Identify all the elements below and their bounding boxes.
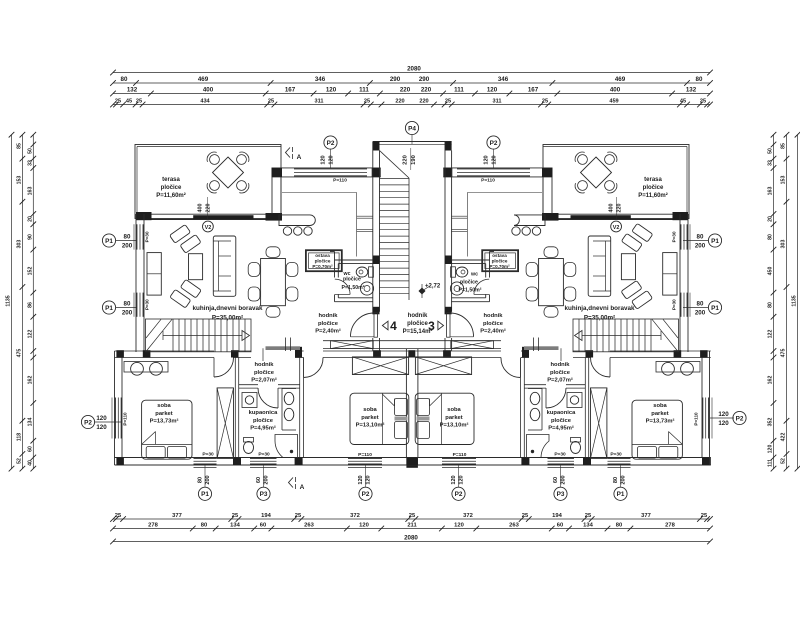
svg-text:200: 200	[264, 475, 270, 484]
svg-text:hodnik: hodnik	[255, 362, 275, 368]
svg-text:200: 200	[122, 243, 133, 250]
svg-text:80: 80	[201, 523, 207, 529]
svg-text:1135: 1135	[792, 295, 798, 306]
storage room (ostava) right unit	[482, 250, 518, 271]
svg-text:P=110: P=110	[481, 178, 495, 184]
apartment number 3	[438, 321, 444, 330]
dimension chain right middle	[786, 135, 788, 469]
svg-text:hodnik: hodnik	[484, 313, 504, 319]
svg-text:290: 290	[390, 76, 401, 83]
svg-text:120: 120	[451, 475, 457, 484]
svg-text:120: 120	[96, 415, 107, 422]
svg-text:278: 278	[148, 523, 158, 529]
svg-text:80: 80	[696, 76, 703, 83]
svg-text:120: 120	[492, 155, 498, 164]
svg-text:hodnik: hodnik	[319, 313, 339, 319]
porch canopy line left unit	[282, 192, 357, 194]
window mark P2 top-right	[487, 136, 500, 149]
svg-text:P=30: P=30	[672, 231, 677, 242]
svg-text:120: 120	[718, 420, 729, 427]
bathroom north wall right unit	[566, 384, 585, 386]
kitchen wall cabinets left unit	[147, 253, 161, 296]
svg-text:120: 120	[358, 475, 364, 484]
bathroom double washbasin left unit	[281, 389, 283, 431]
svg-text:400: 400	[198, 204, 204, 213]
svg-text:parket: parket	[651, 411, 668, 417]
dimension chain right outer 1135	[797, 135, 799, 469]
svg-text:kuhinja,dnevni boravak: kuhinja,dnevni boravak	[193, 305, 263, 312]
svg-text:163: 163	[27, 187, 33, 196]
svg-text:200: 200	[122, 310, 133, 317]
svg-text:25: 25	[364, 99, 370, 105]
svg-text:346: 346	[315, 76, 326, 83]
svg-text:terasa: terasa	[644, 177, 662, 183]
window mark P1 bottom-right	[614, 487, 627, 500]
svg-text:263: 263	[304, 523, 314, 529]
bedroom dresser + stools right unit	[656, 362, 700, 373]
hall west wall left unit	[285, 338, 287, 352]
porch canopy line right unit	[467, 192, 542, 194]
window mark P2 left	[81, 415, 94, 428]
svg-text:P2: P2	[327, 140, 335, 147]
svg-text:120: 120	[366, 475, 372, 484]
armchairs right unit	[632, 223, 653, 242]
svg-text:25: 25	[522, 513, 529, 519]
partition hall/bedroom2 wall left unit	[299, 358, 301, 458]
svg-text:pločice: pločice	[643, 185, 664, 191]
svg-text:P2: P2	[455, 491, 463, 498]
washing machine right unit	[567, 393, 582, 408]
svg-text:120: 120	[487, 87, 498, 94]
bathroom double washbasin right unit	[541, 389, 543, 431]
bed center bedroom right unit	[415, 393, 474, 444]
svg-text:194: 194	[261, 513, 271, 519]
svg-text:P=13,73m²: P=13,73m²	[150, 418, 179, 425]
svg-text:P=110: P=110	[694, 412, 699, 426]
elevation mark +2,72	[418, 287, 425, 294]
svg-text:80: 80	[697, 301, 704, 308]
svg-text:80: 80	[616, 523, 622, 529]
svg-text:P=30: P=30	[145, 231, 150, 242]
svg-text:25: 25	[445, 99, 451, 105]
svg-text:303: 303	[16, 240, 22, 249]
svg-text:400: 400	[609, 204, 615, 213]
window mark P2 right	[733, 411, 746, 424]
top exterior wall right unit	[542, 213, 688, 215]
svg-text:pločice: pločice	[550, 370, 571, 376]
svg-text:80: 80	[124, 234, 131, 241]
svg-text:120: 120	[768, 445, 774, 454]
svg-text:220: 220	[419, 99, 428, 105]
wc sink left unit	[360, 282, 373, 295]
dimension chain right inner	[773, 135, 775, 469]
svg-text:220: 220	[617, 204, 623, 213]
svg-text:469: 469	[615, 76, 626, 83]
svg-text:wc: wc	[470, 272, 478, 278]
svg-text:377: 377	[641, 513, 651, 519]
dimension row top-4	[113, 104, 710, 106]
window mark P3 bottom-left	[257, 487, 270, 500]
svg-text:220: 220	[400, 87, 411, 94]
svg-text:400: 400	[610, 87, 621, 94]
hall west wall right unit	[538, 338, 540, 352]
bed center bedroom left unit	[350, 393, 409, 444]
door bathroom right	[546, 388, 566, 408]
bathroom toilet left unit	[244, 442, 254, 454]
svg-text:111: 111	[768, 459, 774, 467]
svg-text:soba: soba	[363, 407, 377, 413]
door bedroom right	[591, 358, 611, 378]
svg-text:A: A	[300, 484, 305, 491]
svg-text:469: 469	[198, 76, 209, 83]
svg-text:45: 45	[680, 99, 686, 105]
svg-text:80: 80	[697, 234, 704, 241]
wc room walls left unit	[334, 252, 336, 278]
svg-text:P=35,00m²: P=35,00m²	[212, 315, 243, 322]
svg-text:ostava: ostava	[492, 253, 507, 258]
svg-text:P=110: P=110	[358, 452, 372, 458]
entry nook wall left unit	[271, 168, 273, 214]
svg-text:3: 3	[428, 319, 435, 333]
bathroom toilet right unit	[571, 442, 581, 454]
dimension chain left outer 1135	[11, 135, 13, 469]
svg-text:200: 200	[695, 243, 706, 250]
svg-text:pločice: pločice	[318, 321, 339, 327]
svg-text:kupaonica: kupaonica	[547, 410, 576, 416]
door bedroom center-left	[304, 358, 323, 378]
svg-text:450: 450	[768, 267, 774, 276]
svg-text:P=110: P=110	[333, 178, 347, 184]
svg-text:459: 459	[609, 99, 618, 105]
svg-text:hodnik: hodnik	[551, 362, 571, 368]
svg-text:311: 311	[314, 99, 323, 105]
wardrobe bedroom right unit	[591, 388, 607, 459]
svg-text:P=4,95m²: P=4,95m²	[250, 425, 276, 432]
svg-text:P=13,10m²: P=13,10m²	[356, 422, 385, 429]
svg-text:P=110: P=110	[453, 452, 467, 458]
svg-text:434: 434	[200, 99, 210, 105]
door wc left	[335, 279, 350, 294]
svg-text:P1: P1	[105, 305, 113, 312]
svg-text:P1: P1	[201, 491, 209, 498]
wc room walls right unit	[489, 252, 491, 278]
terrace outline right unit	[543, 145, 689, 219]
svg-text:V2: V2	[205, 225, 212, 231]
svg-text:P=4,95m²: P=4,95m²	[548, 425, 574, 432]
internal staircase right unit	[573, 319, 679, 352]
sofa right unit	[588, 236, 611, 296]
kitchen wall cabinets right unit	[663, 253, 677, 296]
bedroom zone north wall	[115, 350, 215, 352]
svg-text:60: 60	[256, 477, 262, 483]
svg-text:60: 60	[553, 477, 559, 483]
svg-text:120: 120	[321, 155, 327, 164]
dining table + chairs right unit	[539, 259, 564, 306]
svg-text:pločice: pločice	[343, 277, 361, 283]
svg-text:P=30: P=30	[672, 299, 677, 310]
svg-text:pločice: pločice	[407, 321, 428, 327]
bathroom north wall left unit	[239, 384, 258, 386]
svg-text:4: 4	[390, 319, 397, 333]
svg-text:120: 120	[329, 155, 335, 164]
svg-text:pločice: pločice	[460, 280, 478, 286]
svg-text:P=110: P=110	[123, 412, 128, 426]
svg-text:P=11,60m²: P=11,60m²	[156, 192, 186, 199]
svg-text:122: 122	[768, 330, 774, 339]
svg-text:25: 25	[542, 99, 548, 105]
svg-text:400: 400	[203, 87, 214, 94]
window mark P1 right lower	[708, 301, 721, 314]
svg-text:122: 122	[27, 330, 33, 339]
svg-text:P2: P2	[84, 419, 92, 426]
stair tower outline	[373, 141, 452, 143]
window mark P1 left upper	[102, 234, 115, 247]
svg-text:45: 45	[126, 99, 132, 105]
wc toilet left unit	[356, 267, 368, 277]
svg-text:hodnik: hodnik	[408, 313, 428, 319]
entry door unit 3	[447, 313, 450, 338]
svg-text:134: 134	[583, 523, 593, 529]
svg-text:220: 220	[421, 87, 432, 94]
svg-text:P2: P2	[490, 140, 498, 147]
svg-text:162: 162	[27, 376, 33, 385]
svg-text:220: 220	[206, 204, 212, 213]
svg-text:303: 303	[781, 240, 787, 249]
svg-text:parket: parket	[361, 415, 378, 421]
staircase treads	[380, 178, 410, 180]
entry nook wall right unit	[551, 168, 553, 214]
svg-text:311: 311	[492, 99, 501, 105]
armchairs left unit	[170, 225, 191, 244]
terrace outline left unit	[135, 145, 281, 219]
wardrobe center bedroom left unit	[352, 357, 408, 375]
wc toilet right unit	[456, 267, 468, 277]
svg-text:parket: parket	[155, 411, 172, 417]
svg-text:P=30: P=30	[258, 452, 270, 458]
svg-text:parket: parket	[445, 415, 462, 421]
svg-text:80: 80	[613, 477, 619, 483]
svg-text:P=0,70m²: P=0,70m²	[312, 264, 333, 269]
kitchen counter right unit	[514, 215, 545, 226]
svg-text:P1: P1	[711, 238, 719, 245]
internal staircase left unit	[146, 319, 252, 352]
svg-text:kuhinja,dnevni boravak: kuhinja,dnevni boravak	[565, 305, 635, 312]
window mark P2 bottom-left	[359, 487, 372, 500]
svg-text:33: 33	[768, 160, 774, 166]
svg-text:25: 25	[585, 513, 592, 519]
shower left unit	[275, 435, 298, 458]
svg-text:60: 60	[27, 446, 33, 452]
svg-text:ostava: ostava	[315, 253, 330, 258]
svg-text:25: 25	[701, 513, 708, 519]
washing machine left unit	[242, 393, 257, 408]
svg-text:153: 153	[16, 176, 22, 185]
svg-text:50: 50	[768, 148, 774, 154]
svg-text:P=1,50m²: P=1,50m²	[459, 288, 482, 294]
svg-text:50: 50	[27, 148, 33, 154]
svg-text:167: 167	[285, 87, 296, 94]
window mark P1 left lower	[102, 301, 115, 314]
svg-text:162: 162	[768, 376, 774, 385]
svg-text:P3: P3	[260, 491, 268, 498]
svg-text:120: 120	[359, 523, 369, 529]
partition bedroom/hall wall right unit	[588, 358, 590, 458]
dimension row top-2	[113, 82, 710, 84]
svg-text:P=1,50m²: P=1,50m²	[342, 285, 365, 291]
svg-text:352: 352	[768, 418, 774, 427]
svg-text:220: 220	[395, 99, 404, 105]
svg-text:P=13,10m²: P=13,10m²	[440, 422, 469, 429]
shower right unit	[527, 435, 550, 458]
svg-text:25: 25	[268, 99, 274, 105]
svg-text:80: 80	[768, 234, 774, 240]
svg-text:152: 152	[27, 267, 33, 276]
svg-text:P=35,00m²: P=35,00m²	[584, 315, 615, 322]
svg-text:111: 111	[359, 87, 369, 94]
svg-text:P=30: P=30	[202, 452, 214, 458]
terrace table and chairs left unit	[213, 157, 244, 188]
svg-text:pločice: pločice	[161, 185, 182, 191]
window mark P3 bottom-right	[554, 487, 567, 500]
svg-text:118: 118	[16, 433, 22, 441]
svg-text:52: 52	[781, 458, 787, 464]
dimension chain left inner	[32, 135, 34, 469]
svg-text:P2: P2	[736, 415, 744, 422]
svg-text:200: 200	[205, 475, 211, 484]
svg-text:P=2,07m²: P=2,07m²	[547, 377, 573, 384]
svg-text:80: 80	[124, 301, 131, 308]
svg-text:pločice: pločice	[492, 259, 508, 264]
dimension row top-1 total 2080	[113, 72, 710, 74]
sofa left unit	[213, 236, 236, 296]
svg-text:220: 220	[403, 155, 409, 165]
window mark P4 top	[405, 121, 418, 134]
svg-text:120: 120	[718, 411, 729, 418]
svg-text:163: 163	[768, 187, 774, 196]
corridor south wall + glazing boxes	[323, 340, 501, 342]
svg-text:+2,72: +2,72	[425, 284, 441, 290]
svg-text:60: 60	[260, 523, 266, 529]
svg-text:P=30: P=30	[610, 452, 622, 458]
svg-text:200: 200	[561, 475, 567, 484]
svg-text:P=2,07m²: P=2,07m²	[251, 377, 277, 384]
door bedroom left	[214, 358, 234, 378]
storage room (ostava) left unit	[306, 250, 342, 271]
kitchen counter left unit	[279, 215, 315, 226]
svg-text:25: 25	[115, 513, 122, 519]
dimension row top-3	[113, 93, 710, 95]
svg-text:P1: P1	[617, 491, 625, 498]
door bathroom left	[258, 388, 278, 408]
svg-text:25: 25	[115, 99, 121, 105]
dining table + chairs left unit	[261, 259, 286, 306]
coffee table right unit	[621, 254, 635, 280]
svg-text:120: 120	[484, 155, 490, 164]
svg-text:P3: P3	[557, 491, 565, 498]
west exterior wall + windows left unit	[135, 214, 137, 352]
svg-text:33: 33	[27, 160, 33, 166]
svg-text:475: 475	[16, 349, 22, 358]
window mark P2 top-left	[324, 136, 337, 149]
wc sink right unit	[450, 282, 463, 295]
porch entry steps left unit	[357, 215, 373, 217]
svg-text:134: 134	[27, 418, 33, 427]
coffee table left unit	[189, 254, 203, 280]
window mark P1 bottom-left	[198, 487, 211, 500]
central party wall	[405, 349, 407, 458]
svg-text:P=2,40m²: P=2,40m²	[480, 328, 506, 335]
porch entry steps right unit	[451, 215, 467, 217]
label V2 right unit	[611, 221, 622, 232]
svg-text:372: 372	[350, 513, 360, 519]
svg-text:25: 25	[136, 99, 142, 105]
svg-text:120: 120	[459, 475, 465, 484]
svg-text:2080: 2080	[407, 66, 421, 73]
partition hall/bedroom2 wall right unit	[523, 358, 525, 458]
svg-text:V2: V2	[613, 225, 620, 231]
svg-text:377: 377	[172, 513, 182, 519]
svg-text:80: 80	[198, 477, 204, 483]
svg-text:A: A	[297, 154, 302, 161]
section mark A bottom	[289, 478, 294, 488]
svg-text:90: 90	[27, 234, 33, 240]
svg-text:85: 85	[781, 143, 787, 149]
hall lintel right unit	[524, 346, 559, 350]
svg-text:120: 120	[96, 424, 107, 431]
svg-text:153: 153	[781, 176, 787, 185]
svg-text:80: 80	[768, 302, 774, 308]
svg-text:P2: P2	[362, 491, 370, 498]
entry wing wall + window left unit	[272, 167, 381, 169]
entry door unit 4	[374, 313, 377, 338]
svg-text:134: 134	[230, 523, 240, 529]
window mark P1 right upper	[708, 234, 721, 247]
hall partition stub right unit	[560, 348, 562, 361]
dimension chain left middle	[21, 135, 23, 469]
dimension row bottom-2	[113, 528, 710, 530]
wardrobe bedroom left unit	[217, 388, 233, 459]
svg-text:P=30: P=30	[145, 299, 150, 310]
svg-text:25: 25	[409, 513, 416, 519]
bed bedroom left unit	[142, 400, 192, 459]
svg-text:132: 132	[686, 87, 697, 94]
svg-text:25: 25	[232, 513, 239, 519]
svg-text:25: 25	[295, 513, 302, 519]
bed bedroom right unit	[632, 400, 682, 459]
svg-text:pločice: pločice	[315, 259, 331, 264]
door wc right	[474, 279, 489, 294]
label V2 left unit	[203, 221, 214, 232]
svg-text:278: 278	[665, 523, 675, 529]
apartment number 4	[382, 321, 388, 330]
window mark P2 bottom-right	[452, 487, 465, 500]
svg-text:P4: P4	[408, 125, 416, 132]
svg-text:pločice: pločice	[483, 321, 504, 327]
svg-text:120: 120	[326, 87, 337, 94]
svg-text:422: 422	[781, 433, 787, 442]
dimension row bottom-3 total 2080	[113, 541, 710, 543]
svg-text:263: 263	[509, 523, 519, 529]
south exterior wall + windows	[115, 457, 711, 459]
svg-text:475: 475	[781, 349, 787, 358]
svg-text:20: 20	[768, 216, 774, 222]
svg-text:kupaonica: kupaonica	[249, 410, 278, 416]
svg-text:pločice: pločice	[254, 370, 275, 376]
svg-text:211: 211	[407, 523, 417, 529]
svg-text:40: 40	[27, 460, 33, 466]
svg-text:P=13,73m²: P=13,73m²	[646, 418, 675, 425]
svg-text:P=11,60m²: P=11,60m²	[638, 192, 668, 199]
